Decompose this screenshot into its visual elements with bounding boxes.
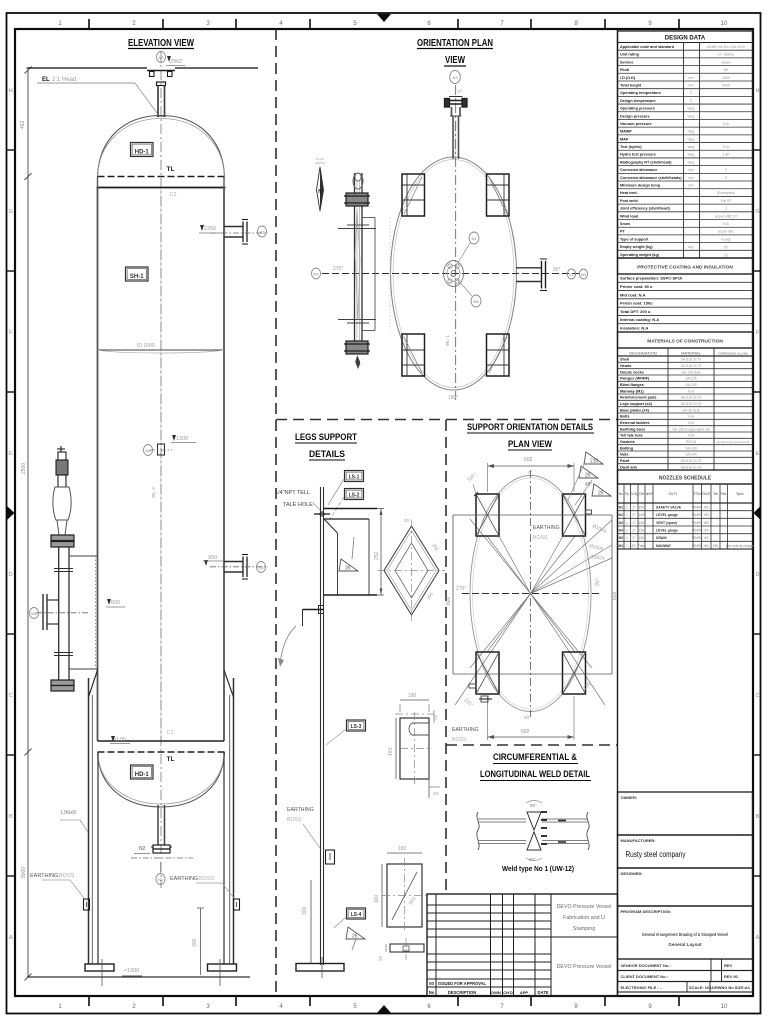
svg-text:Paint: Paint (620, 459, 630, 463)
nozzle V2 tag (257, 226, 266, 237)
svg-text:25: 25 (378, 955, 383, 961)
support weld flags top right (584, 452, 603, 464)
nozzle N3 tag circle (156, 52, 165, 63)
svg-text:V2: V2 (569, 272, 575, 277)
level instrument upper body (58, 452, 66, 460)
svg-text:RTGx: RTGx (693, 492, 702, 496)
support leg bottom-left (476, 652, 499, 694)
svg-text:barg: barg (688, 130, 695, 134)
level bridle standpipe (58, 547, 60, 680)
plan center tag N5 (471, 295, 481, 307)
svg-text:OWNER:: OWNER: (621, 795, 638, 800)
svg-text:Operating weight (kg): Operating weight (kg) (620, 253, 660, 257)
plan vertical centerline (455, 85, 457, 400)
svg-text:as per Std.: as per Std. (718, 230, 734, 234)
support dim box (453, 514, 612, 516)
revision table columns (435, 894, 437, 996)
plan gauge internal pointer (355, 210, 360, 320)
svg-text:PLAN VIEW: PLAN VIEW (508, 439, 552, 450)
svg-text:160: 160 (374, 894, 380, 903)
svg-text:ORIENTATION PLAN: ORIENTATION PLAN (417, 38, 493, 49)
svg-text:SA-516 Gr.70: SA-516 Gr.70 (681, 364, 702, 368)
level bridle upper flange pair (51, 535, 74, 541)
svg-text:1: 1 (626, 521, 628, 525)
svg-text:ASME VIII Div.1 Ed.2019: ASME VIII Div.1 Ed.2019 (707, 45, 745, 49)
dim 160 plate ls3 (395, 718, 397, 779)
plan manway M1 tag (311, 268, 320, 279)
svg-text:Finish coat: 150u: Finish coat: 150u (620, 301, 653, 306)
svg-text:1300: 1300 (176, 436, 188, 442)
elevation overall dimension line (27, 70, 29, 977)
nozzle N1 flange (153, 845, 170, 849)
support leg bottom-right (563, 652, 586, 694)
svg-text:PROTECTIVE COATING AND INSULAT: PROTECTIVE COATING AND INSULATION (637, 265, 733, 271)
svg-text:150: 150 (639, 521, 645, 525)
svg-text:EARTHING: EARTHING (533, 525, 560, 531)
svg-text:M1: M1 (618, 544, 623, 548)
svg-text:LEVEL gauge: LEVEL gauge (656, 528, 678, 532)
support leg top-left (476, 494, 499, 536)
svg-text:EARTHING: EARTHING (30, 873, 58, 879)
svg-text:10: 10 (721, 21, 728, 27)
bridle tick upper (54, 568, 73, 570)
nozzle V2 right +2250 (224, 226, 243, 228)
support radial lines (487, 536, 531, 594)
svg-text:B: B (9, 814, 13, 820)
svg-text:26: 26 (352, 934, 358, 940)
svg-text:General Layout: General Layout (668, 942, 702, 947)
svg-text:180°: 180° (448, 395, 458, 401)
svg-text:600: 600 (111, 600, 120, 606)
svg-text:DESIGNED:: DESIGNED: (621, 871, 643, 876)
svg-text:10: 10 (721, 1004, 728, 1010)
leg base plate detail (296, 964, 344, 972)
svg-text:SA-516 Gr.70: SA-516 Gr.70 (681, 358, 702, 362)
svg-text:C2: C2 (170, 192, 177, 198)
support boss mark bottom left (479, 698, 492, 700)
svg-text:BOSS: BOSS (452, 737, 467, 743)
svg-text:WNRF: WNRF (692, 528, 702, 532)
svg-text:Weld type No 1 (UW-12): Weld type No 1 (UW-12) (502, 864, 574, 873)
svg-text:Primer coat: 50 u: Primer coat: 50 u (620, 284, 653, 289)
svg-text:150: 150 (639, 513, 645, 517)
svg-text:N3: N3 (158, 55, 164, 60)
revision table (427, 894, 618, 996)
nozzles schedule section (618, 470, 753, 484)
svg-text:BOSS: BOSS (199, 876, 215, 882)
leg detail vertical member (320, 487, 322, 965)
weld seam C2 (97, 187, 226, 189)
bottom center marker triangle (377, 1005, 391, 1013)
leader arc to elevation (280, 626, 296, 664)
svg-text:Gaskets: Gaskets (620, 440, 635, 444)
svg-text:Base plates (x4): Base plates (x4) (620, 408, 650, 412)
shell hatch at manway (95, 556, 97, 669)
svg-text:26: 26 (598, 491, 604, 497)
svg-text:24": 24" (632, 544, 638, 548)
svg-text:210: 210 (590, 459, 599, 465)
svg-text:2:1 Head: 2:1 Head (52, 77, 76, 83)
bottom head (98, 752, 225, 807)
svg-text:2250: 2250 (204, 226, 216, 232)
vertical divider elevation/plan (275, 29, 277, 996)
svg-text:N3: N3 (581, 272, 587, 277)
svg-text:G: G (755, 209, 759, 215)
svg-text:Davit arm: Davit arm (620, 465, 638, 469)
svg-text:DWN: DWN (491, 990, 501, 995)
nozzle N1 bottom neck (157, 805, 159, 845)
svg-text:250: 250 (374, 551, 380, 560)
svg-text:NORTH: NORTH (315, 161, 326, 165)
svg-text:C: C (756, 693, 760, 699)
svg-text:Spec: Spec (736, 492, 744, 496)
right leg gusset (224, 670, 234, 697)
svg-text:90°: 90° (553, 267, 561, 273)
level bridle lower flange pair (51, 680, 74, 686)
label HD-1 bottom head (131, 765, 154, 779)
nozzle N4 +1300 (158, 444, 165, 455)
svg-text:Design temperature: Design temperature (620, 99, 656, 103)
svg-text:WNRF: WNRF (692, 536, 702, 540)
svg-text:CIRCUMFERENTIAL &: CIRCUMFERENTIAL & (493, 752, 577, 763)
svg-text:B: B (756, 814, 760, 820)
svg-text:TL: TL (167, 166, 175, 173)
svg-text:A: A (9, 935, 13, 941)
svg-text:1: 1 (626, 536, 628, 540)
elevation 2962 marker (167, 56, 171, 62)
svg-text:Nozzle necks: Nozzle necks (620, 370, 644, 374)
svg-text:Surface preparation: SSPC-SP10: Surface preparation: SSPC-SP10 (620, 276, 683, 281)
svg-text:WNRF: WNRF (692, 544, 702, 548)
svg-text:Total DFT: 200 u: Total DFT: 200 u (620, 309, 651, 314)
svg-text:CLIENT DOCUMENT No.:: CLIENT DOCUMENT No.: (621, 974, 669, 979)
support plan centerline horizontal (462, 593, 600, 595)
nozzle N3 top flange (147, 70, 175, 72)
svg-text:Empty weight (kg): Empty weight (kg) (620, 245, 653, 249)
svg-text:N.A: N.A (688, 389, 694, 393)
svg-text:BOSS: BOSS (287, 817, 302, 823)
svg-text:Service: Service (620, 60, 634, 64)
svg-text:PT: PT (620, 230, 626, 234)
svg-text:MATERIALS OF CONSTRUCTION: MATERIALS OF CONSTRUCTION (647, 339, 723, 345)
plan bridle top ring (353, 173, 363, 189)
svg-text:E: E (9, 451, 13, 457)
svg-text:Corrosion allowance (shell/hea: Corrosion allowance (shell/heads) (620, 176, 682, 180)
svg-text:U - Stamp: U - Stamp (718, 53, 733, 57)
plan nozzle N3 tag (450, 71, 461, 84)
svg-text:Legs support (x4): Legs support (x4) (620, 402, 653, 406)
svg-text:Tell: Tell (713, 492, 718, 496)
shell left edge (97, 188, 99, 742)
shell girth seam ID 1000 (98, 349, 225, 351)
svg-text:60°: 60° (530, 803, 537, 808)
svg-text:SA-106 Gr.B: SA-106 Gr.B (681, 370, 701, 374)
svg-text:C1: C1 (167, 730, 174, 736)
support dim 602 top (487, 463, 489, 492)
svg-text:26: 26 (345, 566, 351, 572)
svg-text:N4: N4 (145, 448, 151, 453)
svg-text:MANWAY: MANWAY (656, 544, 672, 548)
svg-text:VENT (spare): VENT (spare) (656, 521, 677, 525)
svg-text:V2: V2 (260, 230, 266, 235)
leg top attachment plate (324, 508, 377, 510)
plan leg bottom-left (402, 334, 425, 376)
svg-text:Bolting: Bolting (620, 446, 634, 450)
support dim 602 bottom (487, 696, 489, 740)
svg-text:ID 1000: ID 1000 (137, 343, 155, 349)
svg-text:CORROSION ALLOW.: CORROSION ALLOW. (718, 352, 749, 356)
svg-text:Reinforcement pads: Reinforcement pads (620, 396, 657, 400)
level instrument float chamber (53, 487, 71, 520)
svg-text:WL-3: WL-3 (151, 487, 156, 498)
left center marker (7, 506, 15, 520)
svg-text:602: 602 (521, 729, 530, 735)
left leg base plate (85, 964, 114, 971)
svg-text:N.A: N.A (688, 421, 694, 425)
svg-text:SA-516 Gr.70: SA-516 Gr.70 (681, 459, 702, 463)
dim 180 plate ls4 (387, 852, 422, 854)
dim 25 section (385, 944, 387, 952)
svg-text:ELEVATION VIEW: ELEVATION VIEW (128, 38, 194, 49)
svg-text:900: 900 (208, 555, 217, 561)
dim 300 leg base (310, 880, 312, 963)
weld plates (478, 818, 526, 820)
svg-text:N2: N2 (724, 68, 728, 72)
support plan centerline vertical (530, 470, 532, 717)
svg-text:Blind flanges: Blind flanges (620, 383, 644, 387)
svg-text:Applicable code and standard: Applicable code and standard (620, 45, 675, 49)
svg-text:mm: mm (688, 76, 694, 80)
dim 250 attachment (380, 509, 382, 596)
svg-text:270°: 270° (333, 266, 343, 272)
svg-text:vessel: vessel (721, 60, 731, 64)
manway centerline (36, 612, 90, 614)
svg-text:H: H (756, 88, 760, 94)
horizontal divider weld detail box (446, 744, 617, 746)
svg-text:EL: EL (42, 77, 50, 83)
weld plate break right (587, 812, 589, 850)
svg-text:No: No (429, 990, 435, 995)
svg-text:Nuts: Nuts (620, 453, 628, 457)
svg-text:C: C (9, 693, 13, 699)
svg-text:see note at change: see note at change (726, 544, 755, 548)
svg-text:Internal coating: N.A: Internal coating: N.A (620, 317, 659, 322)
svg-text:45°: 45° (404, 518, 411, 523)
svg-text:E: E (756, 451, 760, 457)
plan bridle tick lower (338, 319, 376, 321)
svg-text:N.A: N.A (688, 434, 694, 438)
svg-text:270°: 270° (456, 586, 466, 592)
svg-text:VIEW: VIEW (445, 55, 465, 66)
label HD-1 top head (131, 143, 154, 157)
top ruler ticks (88, 19, 90, 29)
svg-text:Post weld: Post weld (620, 199, 638, 203)
svg-text:Earthing boss: Earthing boss (620, 427, 645, 431)
weld plate break left (477, 812, 479, 850)
materials of construction section (618, 332, 753, 348)
plan bridle tick upper (338, 228, 376, 230)
svg-text:SH-1: SH-1 (130, 274, 144, 280)
svg-text:N2: N2 (139, 846, 146, 852)
svg-text:N1: N1 (471, 236, 477, 241)
svg-text:LS-2: LS-2 (349, 493, 360, 499)
svg-text:SS316: SS316 (686, 440, 696, 444)
svg-text:602: 602 (524, 457, 533, 463)
svg-text:SA-105 or equivalent std: SA-105 or equivalent std (672, 427, 709, 431)
plate detail LS-3 plan (400, 718, 429, 779)
svg-text:ELECTRONIC FILE : ..: ELECTRONIC FILE : .. (621, 985, 663, 990)
svg-text:WNRF: WNRF (692, 521, 702, 525)
svg-text:Heat trmt.: Heat trmt. (620, 191, 638, 195)
plan leg top-left (402, 174, 425, 216)
svg-text:90°: 90° (595, 578, 601, 586)
svg-text:HD-1: HD-1 (135, 772, 150, 778)
svg-text:Total height: Total height (620, 83, 642, 87)
ground line (27, 976, 250, 978)
svg-text:Manway (M1): Manway (M1) (620, 389, 644, 393)
svg-text:180: 180 (398, 846, 407, 852)
svg-text:L90x9: L90x9 (61, 810, 76, 816)
title block program description box (618, 906, 753, 959)
svg-text:150: 150 (703, 513, 709, 517)
svg-text:N3: N3 (452, 75, 458, 80)
nozzle N3 neck (157, 86, 159, 118)
svg-text:LS-4: LS-4 (351, 912, 362, 918)
svg-text:Rusty steel company: Rusty steel company (626, 850, 686, 859)
svg-text:LS-3: LS-3 (351, 724, 362, 730)
svg-text:Operating pressure: Operating pressure (620, 107, 655, 111)
right margin ticks (753, 149, 761, 151)
bottom tangent line TL (98, 751, 226, 753)
svg-text:20: 20 (433, 714, 438, 720)
plate LS-4 section bar (390, 944, 424, 952)
title block owner box (618, 792, 753, 835)
bottom ruler ticks (88, 996, 90, 1006)
svg-text:Shell: Shell (620, 358, 629, 362)
svg-text:DETAILS: DETAILS (309, 449, 345, 460)
svg-text:Mid coat: N.A: Mid coat: N.A (620, 292, 646, 297)
svg-text:barg: barg (688, 114, 695, 118)
svg-text:150: 150 (703, 521, 709, 525)
weld double-V symbol (527, 812, 541, 830)
svg-text:1: 1 (626, 505, 628, 509)
svg-text:APP: APP (520, 990, 529, 995)
design data table (618, 31, 753, 258)
svg-text:Py: Py (625, 492, 629, 496)
svg-text:300: 300 (192, 938, 198, 947)
svg-text:300: 300 (302, 906, 308, 915)
weld flag 26 upper (339, 559, 358, 571)
svg-text:Unit rating: Unit rating (620, 53, 640, 57)
svg-text:TALE HOLE: TALE HOLE (283, 502, 313, 508)
manway connection to shell lower (69, 668, 98, 670)
svg-text:SCALE: N/A: SCALE: N/A (689, 985, 712, 990)
title block file row (618, 982, 753, 993)
svg-text:60°: 60° (524, 715, 531, 720)
svg-text:MATERIAL: MATERIAL (681, 351, 701, 356)
svg-text:602: 602 (446, 596, 452, 605)
title block manufacturer box (618, 835, 753, 868)
svg-text:WNRF: WNRF (692, 505, 702, 509)
svg-text:Tell tale hole: Tell tale hole (620, 434, 643, 438)
svg-text:TL: TL (167, 756, 175, 763)
svg-text:1: 1 (626, 528, 628, 532)
svg-text:(t): (t) (724, 245, 727, 249)
svg-text:≈1000: ≈1000 (124, 968, 139, 974)
plan shell circle (391, 157, 517, 390)
right column border (617, 29, 619, 996)
svg-text:1/4"NPT TELL: 1/4"NPT TELL (275, 490, 310, 496)
top elevation reference line (27, 67, 148, 69)
title block vendor doc row (618, 959, 753, 971)
shell edge stubs at top tangent (97, 177, 99, 188)
svg-text:EARTHING: EARTHING (287, 807, 314, 813)
svg-text:SA-516 Gr.70: SA-516 Gr.70 (681, 402, 702, 406)
svg-text:150: 150 (703, 536, 709, 540)
materials rows (618, 356, 753, 470)
svg-text:0°: 0° (458, 89, 463, 94)
svg-text:barg: barg (688, 153, 695, 157)
svg-text:N.A: N.A (688, 415, 694, 419)
svg-text:BOSS: BOSS (59, 873, 75, 879)
horizontal divider upper/lower views (276, 419, 617, 421)
svg-text:5000: 5000 (722, 83, 730, 87)
svg-text:NOZZLES SCHEDULE: NOZZLES SCHEDULE (659, 476, 712, 482)
design data rows (618, 49, 753, 51)
svg-text:Flanges (WNRF): Flanges (WNRF) (620, 377, 650, 381)
svg-text:N.A: N.A (723, 122, 729, 126)
svg-text:DESIGN DATA: DESIGN DATA (665, 36, 706, 42)
plan right nozzle tags (567, 269, 575, 279)
svg-text:DUTY: DUTY (669, 492, 679, 496)
svg-text:Wind load: Wind load (620, 214, 639, 218)
svg-text:DRWNG No SIZE:A1: DRWNG No SIZE:A1 (712, 986, 750, 990)
left leg gusset (89, 670, 98, 697)
svg-text:Corrosion allowance: Corrosion allowance (620, 168, 657, 172)
svg-text:N1: N1 (619, 505, 623, 509)
svg-text:(Exempted): (Exempted) (717, 191, 735, 195)
svg-text:PROGRAM DESCRIPTION:: PROGRAM DESCRIPTION: (621, 909, 672, 914)
nozzle V3 tag (256, 562, 265, 573)
svg-text:SAFETY VALVE: SAFETY VALVE (656, 505, 682, 509)
gusset plate diamond detail (384, 526, 439, 615)
svg-text:WNRF: WNRF (692, 513, 702, 517)
svg-text:150: 150 (703, 505, 709, 509)
svg-text:REV 00: REV 00 (724, 974, 739, 979)
left leg (88, 678, 90, 964)
svg-text:barg: barg (688, 107, 695, 111)
dim 160 plate ls4 (381, 864, 383, 927)
nozzle N1 centerline (131, 857, 193, 859)
elevation 0.00 marker (111, 736, 115, 742)
plan level bridle standpipe (354, 173, 356, 353)
svg-text:SA-105: SA-105 (685, 383, 696, 387)
svg-text:Type of support: Type of support (620, 237, 649, 241)
vessel centerline (160, 188, 162, 740)
label LS-4 (347, 908, 366, 919)
svg-text:(t): (t) (724, 253, 727, 257)
svg-text:barg: barg (688, 137, 695, 141)
svg-text:4 Legs: 4 Legs (721, 237, 731, 241)
svg-text:160: 160 (388, 747, 394, 756)
svg-text:G: G (9, 209, 13, 215)
title block designed box (618, 868, 753, 906)
svg-text:150: 150 (639, 536, 645, 540)
left margin ticks (7, 149, 16, 151)
right leg (233, 678, 235, 964)
svg-text:Design pressure: Design pressure (620, 114, 650, 118)
svg-text:1.3P: 1.3P (723, 153, 731, 157)
